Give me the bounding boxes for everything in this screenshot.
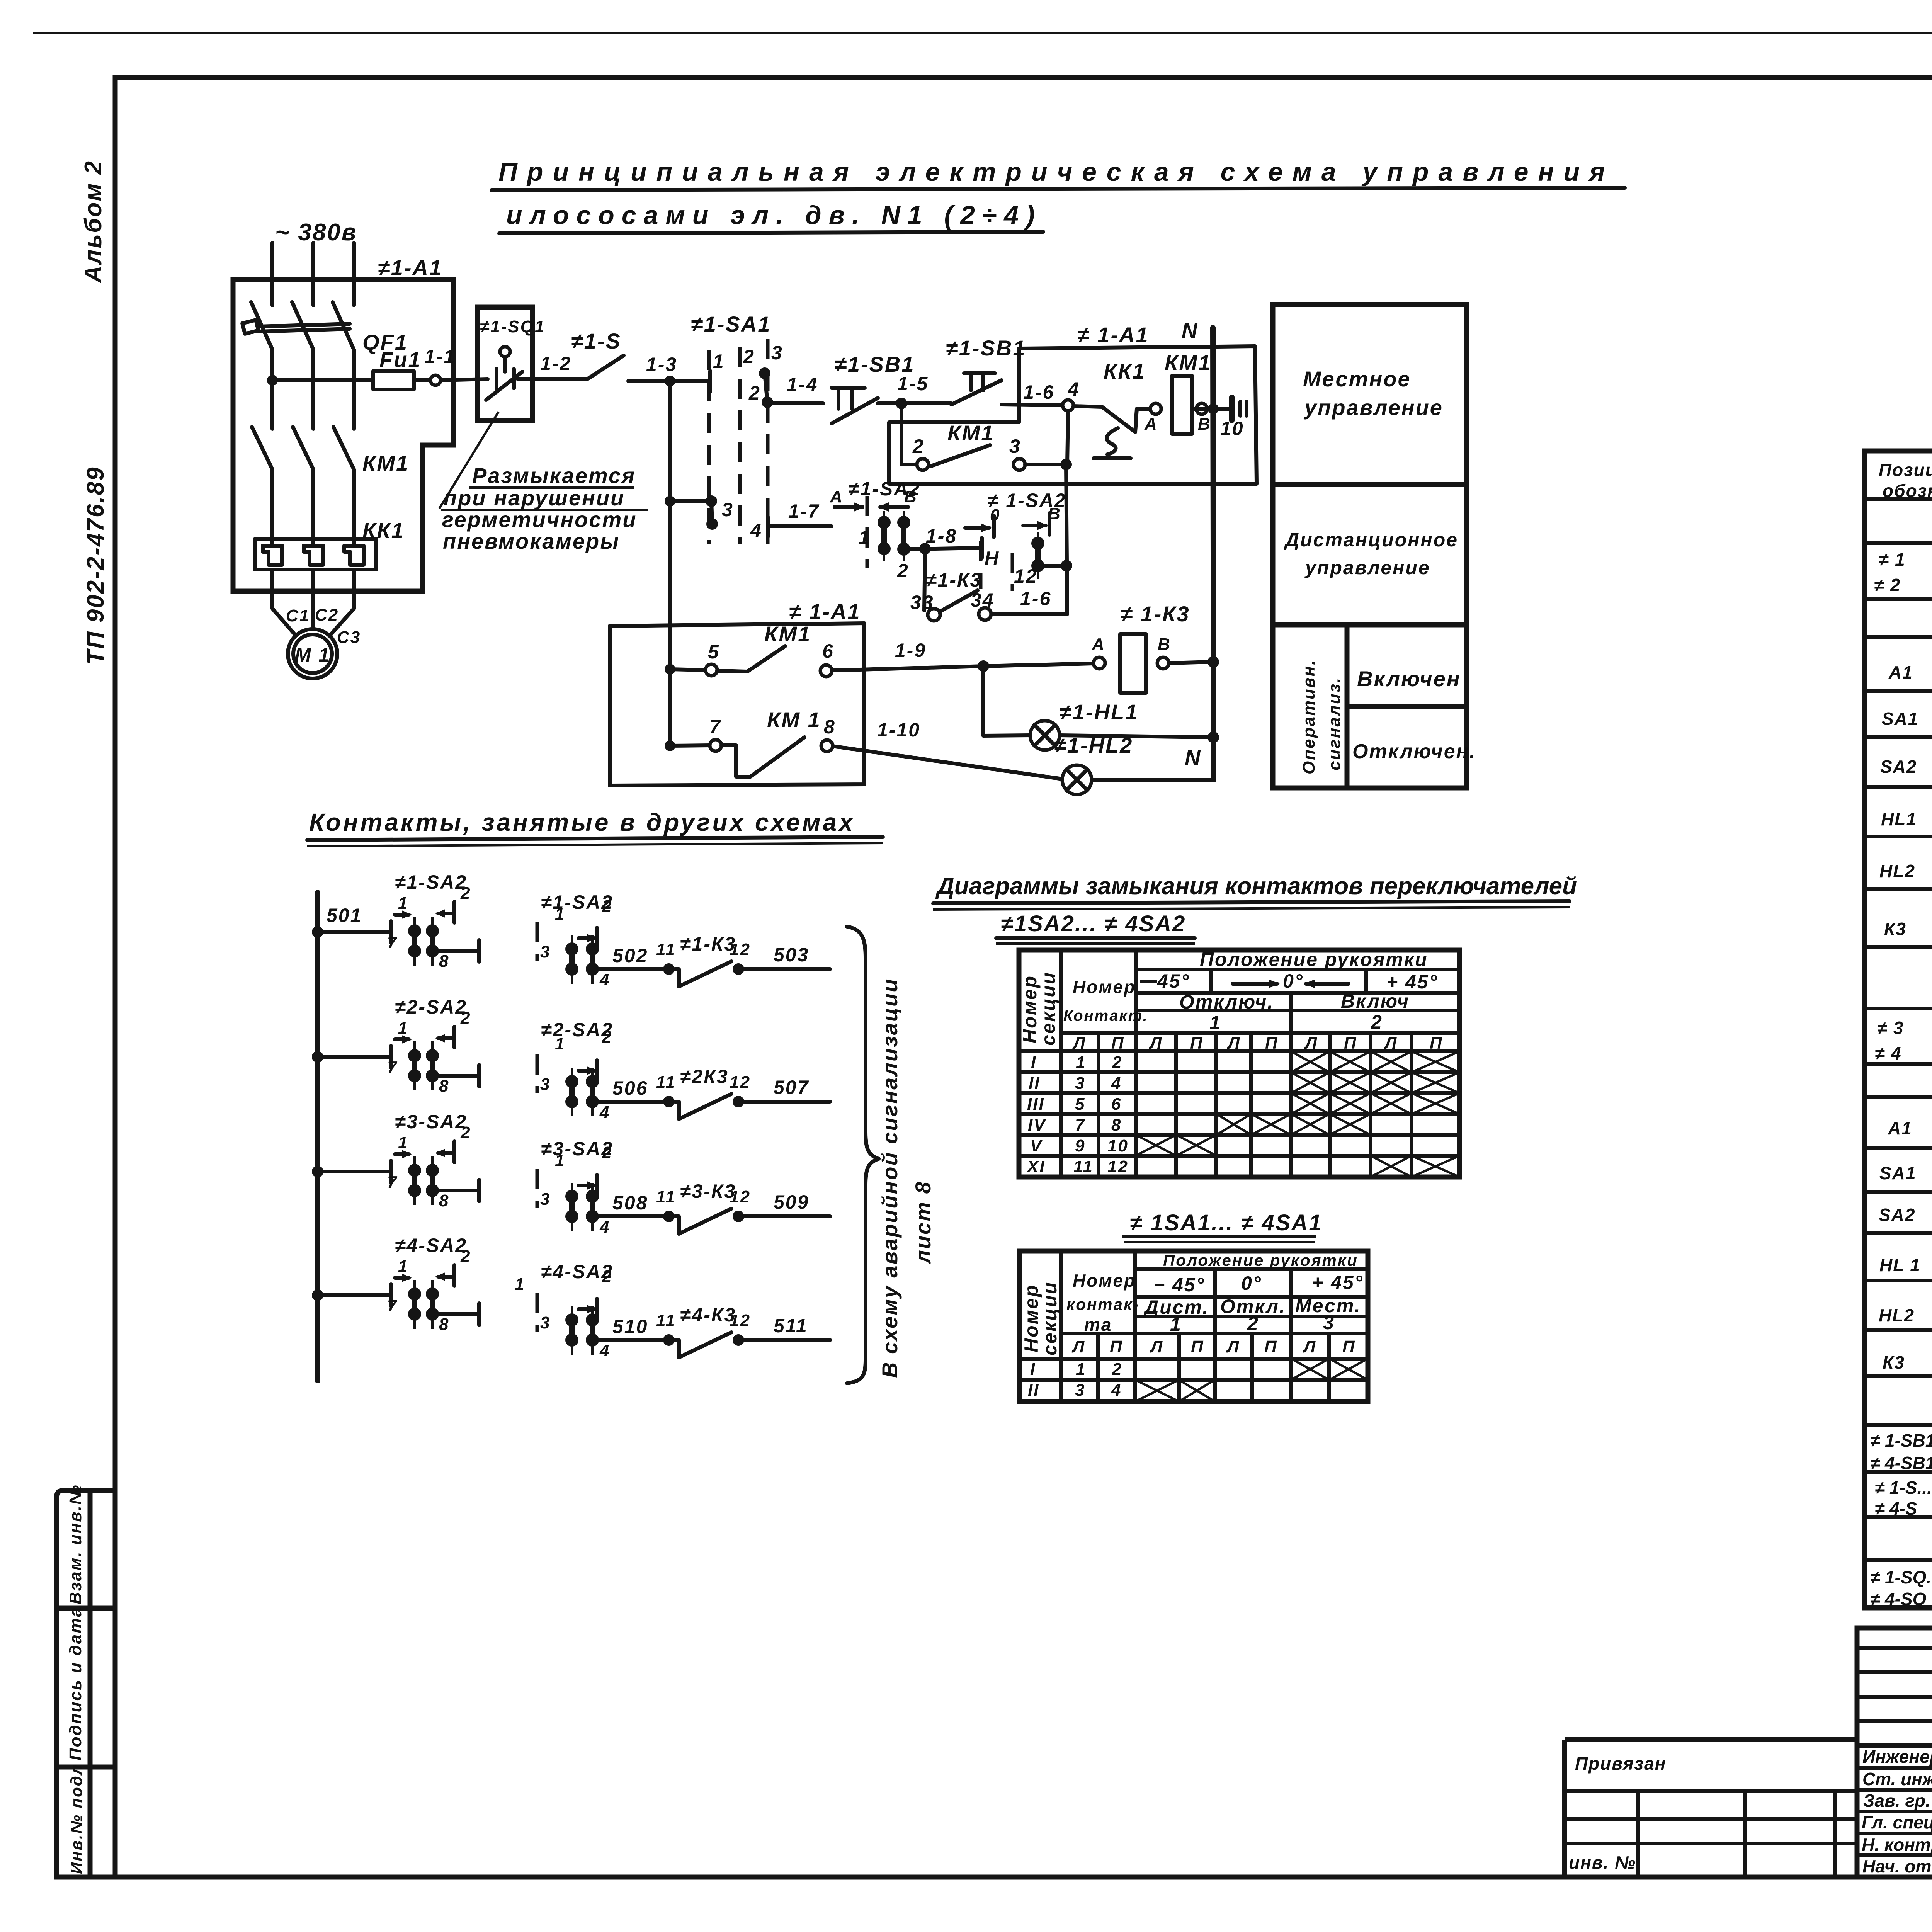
wire 1-8 end tick <box>980 538 984 558</box>
svg-text:Контакты, занятые в других: Контакты, занятые в других схемах <box>309 808 855 836</box>
svg-text:4: 4 <box>599 1103 610 1122</box>
wire K3 to N bus <box>1169 662 1213 663</box>
wire 508 <box>598 1214 663 1218</box>
svg-text:33: 33 <box>910 592 934 613</box>
svg-text:≠ 1-А1: ≠ 1-А1 <box>1077 323 1149 347</box>
svg-text:7: 7 <box>387 1058 398 1077</box>
node row2 <box>312 1051 323 1063</box>
terminal circle 6 <box>820 665 832 677</box>
wire contact 12 to riser node <box>1043 564 1066 568</box>
phase wire L2 low <box>311 469 315 546</box>
svg-text:6: 6 <box>1111 1095 1122 1114</box>
svg-text:12: 12 <box>1107 1157 1129 1176</box>
svg-text:− 45°: − 45° <box>1153 1274 1205 1296</box>
svg-text:5: 5 <box>1075 1095 1085 1114</box>
terminal circle 2 (KM1 aux) <box>917 459 929 470</box>
svg-text:≠3-К3: ≠3-К3 <box>680 1180 736 1202</box>
node 1-3 <box>665 376 675 386</box>
svg-text:≠1-К3: ≠1-К3 <box>680 933 736 955</box>
node row3 <box>312 1166 323 1177</box>
node on phase L1 <box>267 375 278 386</box>
SA1 terminal tick 4 <box>766 517 770 537</box>
svg-text:К3: К3 <box>1884 919 1906 939</box>
KM1 aux NC contact 7-8 <box>721 745 750 777</box>
svg-text:Л: Л <box>1072 1034 1086 1053</box>
switch SA1 section line 2 (dashed) <box>738 347 742 544</box>
KK1 hook bar <box>1094 456 1131 460</box>
contact ≠1-К3 row1 <box>663 963 675 975</box>
node on wire 1-9 <box>978 660 989 672</box>
svg-text:КМ 1: КМ 1 <box>767 707 821 732</box>
svg-text:А: А <box>830 487 844 506</box>
svg-text:≠1-SA2: ≠1-SA2 <box>395 871 467 893</box>
contact circle 34 <box>979 608 991 620</box>
annex table (Привязан) <box>1565 1740 1857 1877</box>
left stamp divider 2 <box>56 1765 115 1770</box>
wire 1-9 <box>832 666 983 670</box>
SA1 contact 3 (dots and bar) <box>706 495 717 507</box>
svg-text:1-5: 1-5 <box>897 373 929 395</box>
svg-text:3: 3 <box>771 342 783 364</box>
wire 34 to riser <box>991 612 1067 616</box>
svg-text:2: 2 <box>602 1027 612 1046</box>
svg-text:Дистанционное: Дистанционное <box>1284 529 1458 551</box>
svg-text:0°: 0° <box>1283 970 1304 992</box>
svg-text:9: 9 <box>1075 1136 1085 1155</box>
pushbutton ≠1-SB1 (start) <box>964 371 995 375</box>
KK1 thermal hook <box>1107 428 1118 454</box>
lower block A1 outline <box>610 623 864 786</box>
svg-text:Зав. гр.: Зав. гр. <box>1863 1791 1930 1811</box>
KM1 holding contact blade <box>931 445 990 466</box>
svg-text:7: 7 <box>387 933 398 952</box>
svg-text:≠2К3: ≠2К3 <box>680 1066 729 1087</box>
svg-text:Принципиальная электрическая: Принципиальная электрическая схема управ… <box>498 157 1614 187</box>
svg-text:2: 2 <box>1247 1313 1259 1334</box>
svg-text:≠4-SA2: ≠4-SA2 <box>395 1235 467 1256</box>
wire row4 mid <box>439 1312 479 1316</box>
motor M1 outer circle <box>288 629 337 679</box>
svg-text:7: 7 <box>387 1296 398 1315</box>
svg-text:П: П <box>1344 1034 1357 1053</box>
svg-text:+ 45°: + 45° <box>1386 971 1438 993</box>
terminal circle 8 <box>821 740 833 752</box>
svg-text:1: 1 <box>1170 1313 1182 1335</box>
svg-text:≠ 4-SQ: ≠ 4-SQ <box>1870 1589 1927 1609</box>
svg-text:≠1SA2... ≠ 4SA2: ≠1SA2... ≠ 4SA2 <box>1001 911 1186 936</box>
svg-text:7: 7 <box>709 716 721 738</box>
svg-text:≠ 1-SQ...: ≠ 1-SQ... <box>1870 1567 1932 1587</box>
SA2-I contact column 2 <box>903 511 905 561</box>
svg-text:501: 501 <box>327 905 362 926</box>
svg-text:КК1: КК1 <box>1104 359 1146 383</box>
lamp branch down <box>981 666 985 736</box>
SA1 table X marks <box>1135 1359 1368 1401</box>
svg-text:Л: Л <box>1150 1337 1163 1356</box>
riser node down to SA2 level <box>1066 464 1067 614</box>
svg-text:HL1: HL1 <box>1881 809 1917 829</box>
svg-text:1: 1 <box>1076 1053 1086 1072</box>
SA1 terminal tick 1 <box>708 371 712 392</box>
svg-text:4: 4 <box>599 970 610 989</box>
svg-text:КМ1: КМ1 <box>947 421 994 445</box>
svg-text:Включен: Включен <box>1357 667 1461 691</box>
K3 contact blade <box>940 590 978 611</box>
switch SA1 section line 1 (dashed) <box>707 350 711 544</box>
svg-text:Нач. отд: Нач. отд <box>1862 1856 1932 1876</box>
svg-text:7: 7 <box>1075 1116 1085 1134</box>
mode box divider 1 <box>1273 482 1466 487</box>
KK1 heater element 1 <box>263 546 282 565</box>
svg-text:Ст. инж.: Ст. инж. <box>1862 1769 1932 1789</box>
wire lamp HL2 to N bus end <box>1092 778 1214 782</box>
svg-text:1-6: 1-6 <box>1023 381 1054 403</box>
svg-text:Л: Л <box>1227 1034 1241 1053</box>
svg-text:Инженер: Инженер <box>1862 1747 1932 1767</box>
revision rows <box>1857 1646 1932 1650</box>
wire 1-7 <box>770 524 832 528</box>
svg-text:П: П <box>1190 1034 1204 1053</box>
wire lamp HL1 to N bus <box>1060 735 1214 737</box>
svg-text:2: 2 <box>1371 1011 1383 1033</box>
svg-text:II: II <box>1028 1381 1039 1400</box>
svg-text:≠ 1-SВ1...: ≠ 1-SВ1... <box>1870 1430 1932 1451</box>
svg-text:502: 502 <box>612 945 648 966</box>
svg-text:1: 1 <box>398 1257 408 1276</box>
svg-text:А1: А1 <box>1888 662 1913 682</box>
signal bus 501 <box>315 893 320 1381</box>
svg-text:Л: Л <box>1303 1337 1316 1356</box>
svg-text:IV: IV <box>1028 1116 1046 1134</box>
svg-text:2: 2 <box>460 1247 471 1266</box>
node on N bus (coil) <box>1208 403 1219 414</box>
svg-text:Диаграммы замыкания контакто: Диаграммы замыкания контактов переключат… <box>935 873 1577 900</box>
limit switch SQ1 box <box>478 307 532 421</box>
svg-text:≠ 4: ≠ 4 <box>1875 1043 1902 1063</box>
wire 1-4 <box>772 401 823 405</box>
svg-text:2: 2 <box>460 1009 471 1027</box>
riser to coil terminal A <box>1135 409 1150 432</box>
parts list table grid <box>1865 451 1932 1608</box>
svg-text:КМ1: КМ1 <box>764 622 811 646</box>
svg-text:8: 8 <box>439 1315 449 1334</box>
svg-text:≠3-SA2: ≠3-SA2 <box>395 1111 467 1133</box>
svg-text:~ 380в: ~ 380в <box>275 219 357 246</box>
svg-text:7: 7 <box>387 1173 398 1192</box>
left stamp column box <box>56 1491 115 1877</box>
thermal contact KK1 blade <box>1102 407 1135 432</box>
contactor KM1 pole 1 blade <box>252 427 272 469</box>
svg-text:≠ 4-S: ≠ 4-S <box>1875 1498 1917 1519</box>
wire bus to ≠4-SA2 <box>318 1293 391 1297</box>
svg-text:1-3: 1-3 <box>646 354 677 375</box>
left stamp divider 1 <box>56 1606 115 1611</box>
svg-text:HL2: HL2 <box>1879 861 1915 881</box>
svg-text:≠1-SA1: ≠1-SA1 <box>691 312 771 336</box>
SQ1 actuator stem <box>503 357 507 372</box>
svg-text:34: 34 <box>971 589 995 611</box>
svg-text:Л: Л <box>1226 1337 1240 1356</box>
svg-text:≠1-S: ≠1-S <box>571 329 621 353</box>
svg-text:II: II <box>1029 1074 1040 1093</box>
svg-text:Л: Л <box>1304 1034 1318 1053</box>
svg-text:2: 2 <box>602 1143 612 1162</box>
svg-text:SА1: SА1 <box>1879 1163 1916 1183</box>
contactor KM1 pole 3 blade <box>333 427 354 469</box>
wire to circle 5 <box>670 669 706 670</box>
svg-text:1: 1 <box>713 350 725 372</box>
svg-text:10: 10 <box>1220 418 1244 439</box>
svg-text:HL 1: HL 1 <box>1879 1255 1921 1275</box>
svg-text:45°: 45° <box>1157 970 1190 992</box>
svg-text:510: 510 <box>612 1316 648 1337</box>
svg-text:4: 4 <box>599 1218 610 1236</box>
SA2-II contact column 12 <box>1037 532 1039 579</box>
svg-text:≠ 1-А1: ≠ 1-А1 <box>789 599 861 624</box>
phase wire L3 mid <box>352 350 356 429</box>
svg-text:1: 1 <box>398 894 408 913</box>
svg-text:N: N <box>1185 745 1201 770</box>
svg-text:ТП 902-2-476.89: ТП 902-2-476.89 <box>82 466 109 665</box>
svg-text:Альбом 2: Альбом 2 <box>80 160 107 284</box>
SA2-II dashed line mid <box>1011 553 1014 591</box>
svg-text:11: 11 <box>1073 1157 1094 1176</box>
svg-text:Положение рукоятки: Положение рукоятки <box>1200 949 1428 970</box>
svg-text:КМ1: КМ1 <box>1165 350 1211 375</box>
svg-text:1: 1 <box>398 1133 408 1152</box>
svg-text:HL2: HL2 <box>1879 1305 1915 1325</box>
svg-text:4: 4 <box>1111 1074 1122 1093</box>
svg-text:≠ 1: ≠ 1 <box>1879 549 1906 570</box>
SQ1 contact blade <box>486 372 522 400</box>
svg-text:1-6: 1-6 <box>1020 588 1051 609</box>
svg-text:508: 508 <box>612 1192 648 1214</box>
svg-text:Положение рукоятки: Положение рукоятки <box>1163 1251 1358 1269</box>
wire bus to ≠2-SA2 <box>318 1055 391 1059</box>
svg-text:Номер: Номер <box>1073 1270 1136 1291</box>
breaker QF1 drive mark <box>242 320 259 334</box>
brace to alarm circuit <box>847 927 879 1383</box>
svg-text:SА1: SА1 <box>1882 709 1918 729</box>
lamp ≠1-HL1 <box>1030 721 1060 750</box>
svg-text:Л: Л <box>1384 1034 1398 1053</box>
svg-text:В: В <box>904 487 918 506</box>
svg-text:≠ 1-S...: ≠ 1-S... <box>1875 1478 1932 1498</box>
svg-text:1-7: 1-7 <box>788 500 820 522</box>
holding contact branch from node 1-5 <box>901 403 917 464</box>
signature rows <box>1857 1766 1932 1770</box>
svg-text:2: 2 <box>897 560 909 582</box>
phase wire L1 top <box>270 243 274 305</box>
svg-text:12: 12 <box>730 1311 751 1330</box>
svg-text:≠4-К3: ≠4-К3 <box>680 1304 736 1326</box>
breaker QF1 pole 2 blade <box>292 302 313 350</box>
svg-text:П: П <box>1264 1337 1278 1356</box>
svg-text:III: III <box>1027 1095 1045 1114</box>
svg-text:2: 2 <box>748 382 761 404</box>
terminal circle В (KM1 coil) <box>1196 403 1207 414</box>
node at contact 12 level <box>1061 560 1072 571</box>
svg-text:П: П <box>1110 1337 1123 1356</box>
svg-text:C1: C1 <box>286 606 310 625</box>
svg-text:сигнализ.: сигнализ. <box>1325 677 1344 770</box>
svg-text:П: П <box>1430 1034 1443 1053</box>
svg-text:12: 12 <box>730 1073 751 1092</box>
signal box vertical divider <box>1345 625 1350 788</box>
svg-text:I: I <box>1030 1360 1036 1379</box>
svg-text:Fu1: Fu1 <box>379 347 422 372</box>
terminal circle А (KM1 coil) <box>1150 403 1161 414</box>
svg-text:4: 4 <box>599 1341 610 1360</box>
svg-text:А1: А1 <box>1888 1118 1912 1138</box>
contact ≠4-К3 row4 <box>663 1334 675 1346</box>
svg-text:1-8: 1-8 <box>926 525 957 547</box>
SA1 contact 3-4 branch: node <box>665 496 675 507</box>
svg-text:I: I <box>1031 1053 1037 1072</box>
wire to lamp HL1 <box>983 735 1030 736</box>
phase wire L1 mid <box>270 350 274 429</box>
svg-text:8: 8 <box>439 952 449 971</box>
svg-text:лист 8: лист 8 <box>911 1180 935 1265</box>
svg-text:12: 12 <box>730 1187 751 1206</box>
svg-text:1: 1 <box>398 1019 408 1037</box>
svg-text:В: В <box>1158 635 1171 654</box>
svg-text:1: 1 <box>1076 1360 1086 1379</box>
wire 1-10 <box>833 746 1062 779</box>
svg-text:8: 8 <box>1111 1116 1122 1134</box>
wire 502 <box>598 967 663 971</box>
svg-text:≠2-SA2: ≠2-SA2 <box>395 996 467 1018</box>
left stamp inner vertical <box>88 1491 93 1877</box>
svg-text:Номер: Номер <box>1073 977 1136 997</box>
svg-text:≠1-SQ1: ≠1-SQ1 <box>480 317 545 336</box>
svg-text:C3: C3 <box>337 628 361 647</box>
svg-text:≠ 1SA1... ≠ 4SA1: ≠ 1SA1... ≠ 4SA1 <box>1130 1210 1323 1235</box>
relay coil ≠1-К3 <box>1120 634 1146 693</box>
svg-text:Инв.№ подл: Инв.№ подл <box>67 1764 85 1874</box>
wire to circle 7 <box>670 745 710 746</box>
svg-text:1: 1 <box>555 1151 565 1170</box>
svg-text:≠1-HL2: ≠1-HL2 <box>1054 733 1133 757</box>
node row1 <box>312 926 323 938</box>
svg-text:3: 3 <box>1075 1381 1085 1400</box>
svg-text:507: 507 <box>774 1077 809 1098</box>
svg-text:509: 509 <box>774 1191 809 1213</box>
svg-text:П: П <box>1342 1337 1356 1356</box>
node on wire 1-8 <box>919 543 931 554</box>
motor lead C1 <box>272 570 295 634</box>
svg-text:+ 45°: + 45° <box>1312 1272 1364 1293</box>
svg-text:Л: Л <box>1071 1337 1085 1356</box>
svg-text:SА2: SА2 <box>1879 1205 1915 1225</box>
lamp ≠1-HL2 <box>1062 765 1092 794</box>
svg-text:V: V <box>1030 1136 1043 1155</box>
svg-text:Позиц.: Позиц. <box>1879 460 1932 480</box>
svg-text:Отключ.: Отключ. <box>1179 991 1274 1013</box>
svg-text:контак-: контак- <box>1066 1295 1139 1313</box>
svg-text:секции: секции <box>1037 971 1059 1046</box>
svg-text:5: 5 <box>708 641 720 663</box>
node on N bus (K3) <box>1207 656 1219 668</box>
motor lead C3 <box>331 570 354 634</box>
svg-text:1: 1 <box>515 1275 525 1294</box>
svg-text:пневмокамеры: пневмокамеры <box>443 529 620 553</box>
wire 506 <box>598 1100 663 1104</box>
svg-text:4: 4 <box>750 520 762 541</box>
wire 1-1 to SQ1 <box>440 379 488 380</box>
svg-text:N: N <box>1182 318 1198 342</box>
contact ≠3-К3 row3 <box>663 1211 675 1222</box>
contact circle 33 <box>928 609 940 621</box>
svg-text:2: 2 <box>602 1267 612 1286</box>
svg-text:А: А <box>1092 635 1105 654</box>
wire 1-6 to terminal 4 <box>1002 405 1063 405</box>
signal box divider <box>1347 704 1466 709</box>
wire row3 mid <box>439 1189 479 1192</box>
breaker QF1 crossbar <box>258 324 350 327</box>
riser circle4 to node <box>1067 411 1068 464</box>
wire node to SA1 contact 3 <box>670 499 710 503</box>
svg-text:12: 12 <box>730 940 751 959</box>
svg-text:4: 4 <box>1068 378 1080 400</box>
svg-text:11: 11 <box>656 940 676 959</box>
svg-text:2: 2 <box>1112 1053 1122 1072</box>
svg-text:Подпись и дата: Подпись и дата <box>66 1606 85 1760</box>
svg-text:Включ: Включ <box>1341 990 1410 1012</box>
contactor coil KM1 <box>1172 376 1192 434</box>
svg-text:3: 3 <box>1075 1074 1085 1093</box>
svg-text:XI: XI <box>1026 1157 1046 1176</box>
node row4 <box>312 1289 323 1301</box>
SA2-II dashed line Н <box>979 541 983 589</box>
KK1 heater element 3 <box>344 546 364 565</box>
svg-text:Контакт.: Контакт. <box>1063 1007 1148 1024</box>
terminal circle В (K3) <box>1157 657 1169 669</box>
svg-text:2: 2 <box>912 435 925 457</box>
svg-text:2: 2 <box>460 884 471 903</box>
svg-text:Н. контр.: Н. контр. <box>1862 1835 1932 1855</box>
svg-text:В схему аварийной сигнализаци: В схему аварийной сигнализации <box>878 978 902 1378</box>
terminal circle 4 <box>1063 400 1073 411</box>
relay contact ≠1-К3 branch riser <box>924 549 925 611</box>
switch ≠1-S blade <box>587 355 624 379</box>
svg-text:3: 3 <box>722 499 734 520</box>
svg-text:1: 1 <box>555 905 565 923</box>
svg-text:К3: К3 <box>1883 1352 1905 1372</box>
svg-text:SА2: SА2 <box>1880 757 1917 777</box>
svg-text:секции: секции <box>1039 1281 1061 1355</box>
motor M1 inner circle <box>293 634 332 673</box>
phase wire L3 low <box>352 469 356 546</box>
svg-text:506: 506 <box>612 1077 648 1099</box>
svg-text:1: 1 <box>859 527 871 548</box>
wire fuse to terminal 1-1 <box>414 378 430 382</box>
node under circle 4 <box>1060 459 1072 470</box>
node on N bus (HL1) <box>1207 731 1219 743</box>
sheet outer trim border top <box>33 32 1932 34</box>
breaker QF1 pole 1 blade <box>251 302 272 350</box>
thermal relay KK1 box <box>255 539 376 570</box>
fuse FU1 body <box>373 371 414 389</box>
svg-text:≠1-К3: ≠1-К3 <box>926 569 982 591</box>
neutral bus N <box>1213 328 1214 780</box>
svg-text:3: 3 <box>1323 1312 1335 1333</box>
mode box divider 2 <box>1273 622 1466 628</box>
svg-text:3: 3 <box>540 1190 551 1209</box>
svg-text:2: 2 <box>460 1123 471 1142</box>
svg-text:4: 4 <box>1111 1381 1122 1400</box>
SA1 contact 2 (dots and bar) <box>759 367 770 379</box>
